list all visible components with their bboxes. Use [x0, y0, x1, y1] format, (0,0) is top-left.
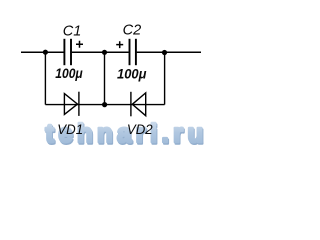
wire bottom rail: [45, 104, 164, 106]
watermark tehnari.ru: [45, 120, 208, 149]
C2 plus sign: [116, 41, 123, 48]
svg-text:C1: C1: [63, 22, 82, 39]
node junction J2: [102, 50, 107, 55]
node junction J1: [43, 50, 48, 55]
diode VD2: [131, 92, 146, 117]
node junction bottom: [102, 102, 107, 107]
wire vertical middle: [104, 52, 106, 104]
node junction J3: [162, 50, 167, 55]
svg-text:VD2: VD2: [127, 122, 153, 137]
wire vertical left (node A down): [44, 52, 46, 104]
wire top rail left segment: [21, 51, 64, 53]
wire top rail right segment: [137, 51, 201, 53]
wire vertical right: [164, 52, 166, 104]
capacitor C1 plates: [64, 39, 71, 65]
wire top rail middle segment: [72, 51, 129, 53]
svg-text:100μ: 100μ: [117, 65, 147, 81]
svg-text:VD1: VD1: [57, 122, 83, 137]
svg-text:C2: C2: [123, 22, 142, 39]
C1 plus sign: [76, 41, 83, 48]
svg-text:100μ: 100μ: [55, 65, 83, 81]
capacitor C2 plates: [130, 39, 136, 65]
diode VD1: [64, 92, 79, 116]
